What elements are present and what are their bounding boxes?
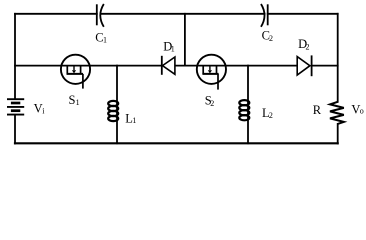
wire L1 branch — [116, 66, 118, 144]
svg-text:1: 1 — [132, 116, 136, 125]
wire right lower — [337, 124, 339, 144]
svg-text:2: 2 — [269, 111, 273, 120]
inductor L1 — [108, 101, 118, 121]
label L1 — [125, 111, 136, 125]
svg-text:R: R — [313, 103, 322, 117]
switch S2 (circled MOSFET) — [197, 55, 226, 90]
label Vo — [351, 102, 363, 116]
wire top right segment — [268, 13, 338, 15]
wire bottom — [15, 142, 338, 144]
svg-text:S: S — [69, 93, 76, 107]
label D1 — [163, 39, 174, 53]
label Vi — [34, 102, 46, 116]
label C1 — [95, 30, 107, 44]
wire main rail middle (D1 to D2) — [175, 65, 297, 67]
svg-text:1: 1 — [103, 36, 107, 45]
battery Vi — [7, 99, 24, 114]
inductor L2 — [239, 100, 249, 120]
wire left upper — [14, 14, 16, 98]
wire right upper — [337, 14, 339, 102]
wire main rail left (Vi to D1) — [15, 65, 162, 67]
label R — [313, 103, 322, 117]
wire left lower — [14, 116, 16, 144]
wire main rail right (D2 to output) — [312, 65, 338, 67]
diode D2 — [297, 55, 311, 76]
label D2 — [298, 37, 309, 51]
wire top left segment — [15, 13, 97, 15]
label C2 — [262, 28, 273, 43]
svg-text:o: o — [360, 107, 364, 116]
svg-text:i: i — [42, 107, 45, 116]
capacitor C2 — [261, 4, 268, 27]
switch S1 (circled MOSFET) — [61, 55, 90, 89]
label S1 — [69, 93, 80, 107]
wire L2 branch — [247, 66, 249, 144]
svg-text:1: 1 — [171, 45, 175, 54]
svg-text:2: 2 — [306, 42, 310, 51]
resistor R — [330, 102, 344, 124]
wire middle vertical (top to rail) — [184, 14, 186, 66]
label L2 — [262, 106, 273, 120]
svg-text:1: 1 — [76, 98, 80, 107]
diode D1 — [162, 56, 175, 75]
svg-text:2: 2 — [210, 99, 214, 108]
wire top middle segment — [100, 13, 264, 15]
capacitor C1 — [97, 4, 104, 27]
svg-text:2: 2 — [269, 34, 273, 43]
label S2 — [205, 94, 215, 108]
